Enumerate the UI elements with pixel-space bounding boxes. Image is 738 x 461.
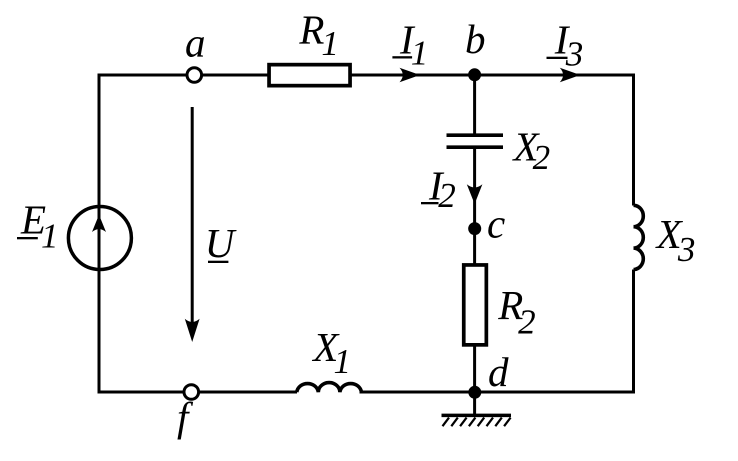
node f	[184, 385, 199, 400]
svg-text:U: U	[205, 220, 237, 266]
label I3 underline	[547, 57, 568, 59]
svg-text:1: 1	[321, 24, 339, 63]
wire bottom left segment	[98, 391, 298, 394]
wire node b to capacitor X2	[473, 75, 476, 134]
label I2 underline	[421, 202, 439, 204]
source E1	[68, 207, 131, 270]
resistor R2	[464, 265, 487, 345]
svg-text:2: 2	[438, 176, 456, 215]
wire right lower segment	[632, 270, 635, 394]
svg-text:a: a	[185, 20, 206, 66]
svg-text:1: 1	[334, 342, 352, 381]
svg-text:b: b	[465, 16, 486, 62]
resistor R1	[269, 65, 350, 86]
label U underline	[208, 261, 228, 263]
inductor X3	[634, 205, 644, 269]
node b	[468, 68, 481, 81]
capacitor X2	[447, 135, 504, 147]
wire top	[99, 74, 634, 77]
label E1 underline	[17, 237, 38, 239]
wire right upper segment	[632, 74, 635, 206]
svg-text:2: 2	[518, 302, 536, 341]
svg-text:1: 1	[41, 217, 59, 256]
label I1 underline	[392, 56, 412, 58]
svg-text:2: 2	[533, 138, 551, 177]
arrow I1	[400, 68, 421, 82]
node c	[468, 222, 481, 235]
svg-text:c: c	[487, 201, 505, 247]
wire left	[98, 74, 101, 394]
arrow U	[185, 107, 200, 342]
wire bottom right segment	[360, 391, 636, 394]
ground	[442, 392, 512, 426]
node a	[187, 68, 202, 83]
svg-text:3: 3	[565, 34, 584, 73]
node d	[468, 386, 481, 399]
svg-text:1: 1	[411, 34, 429, 73]
svg-text:d: d	[488, 349, 509, 395]
wire resistor R2 to node d	[473, 346, 476, 393]
wire capacitor X2 to resistor R2	[473, 149, 476, 264]
inductor X1	[297, 383, 362, 393]
arrow I2	[467, 184, 483, 204]
svg-text:3: 3	[677, 230, 696, 269]
arrow I3	[560, 68, 581, 82]
